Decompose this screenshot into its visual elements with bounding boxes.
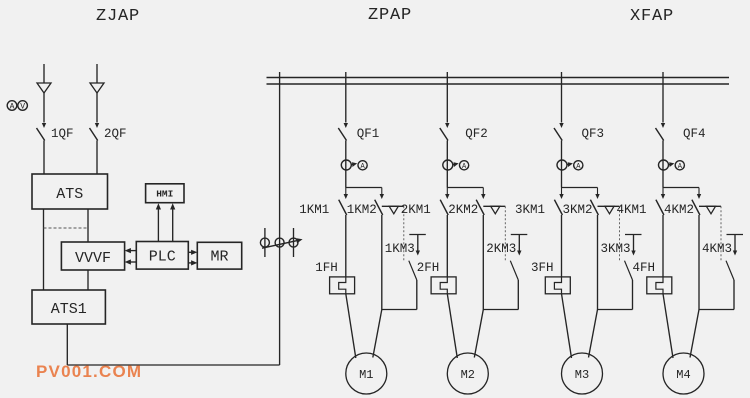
svg-text:4FH: 4FH — [632, 261, 655, 275]
svg-text:3FH: 3FH — [531, 261, 554, 275]
svg-text:1KM1: 1KM1 — [299, 203, 329, 217]
svg-text:QF3: QF3 — [582, 127, 605, 141]
svg-text:QF2: QF2 — [465, 127, 488, 141]
svg-text:4KM2: 4KM2 — [664, 203, 694, 217]
svg-text:ZPAP: ZPAP — [368, 6, 412, 25]
svg-text:M4: M4 — [676, 368, 690, 382]
svg-text:4KM1: 4KM1 — [616, 203, 646, 217]
svg-text:2KM3: 2KM3 — [486, 242, 516, 256]
svg-text:QF4: QF4 — [683, 127, 706, 141]
svg-text:2KM2: 2KM2 — [448, 203, 478, 217]
svg-text:XFAP: XFAP — [630, 7, 674, 26]
svg-text:1KM2: 1KM2 — [347, 203, 377, 217]
svg-text:VVVF: VVVF — [75, 250, 111, 267]
svg-text:V: V — [20, 103, 25, 112]
svg-text:2KM1: 2KM1 — [401, 203, 431, 217]
svg-text:M1: M1 — [359, 368, 373, 382]
svg-text:1QF: 1QF — [51, 127, 74, 141]
svg-text:4KM3: 4KM3 — [702, 242, 732, 256]
svg-text:M3: M3 — [575, 368, 589, 382]
svg-text:3KM1: 3KM1 — [515, 203, 545, 217]
svg-text:HMI: HMI — [156, 189, 173, 200]
svg-text:1KM3: 1KM3 — [385, 242, 415, 256]
svg-text:PLC: PLC — [149, 249, 176, 266]
svg-text:2QF: 2QF — [104, 127, 127, 141]
svg-text:QF1: QF1 — [357, 127, 380, 141]
svg-text:2FH: 2FH — [417, 261, 440, 275]
svg-text:ZJAP: ZJAP — [96, 7, 140, 26]
svg-text:3KM3: 3KM3 — [601, 242, 631, 256]
svg-text:ATS1: ATS1 — [51, 301, 87, 318]
svg-text:3KM2: 3KM2 — [563, 203, 593, 217]
svg-text:M2: M2 — [461, 368, 475, 382]
svg-text:A: A — [10, 103, 15, 112]
svg-text:ATS: ATS — [56, 186, 83, 203]
svg-text:1FH: 1FH — [315, 261, 338, 275]
svg-text:MR: MR — [210, 249, 228, 266]
